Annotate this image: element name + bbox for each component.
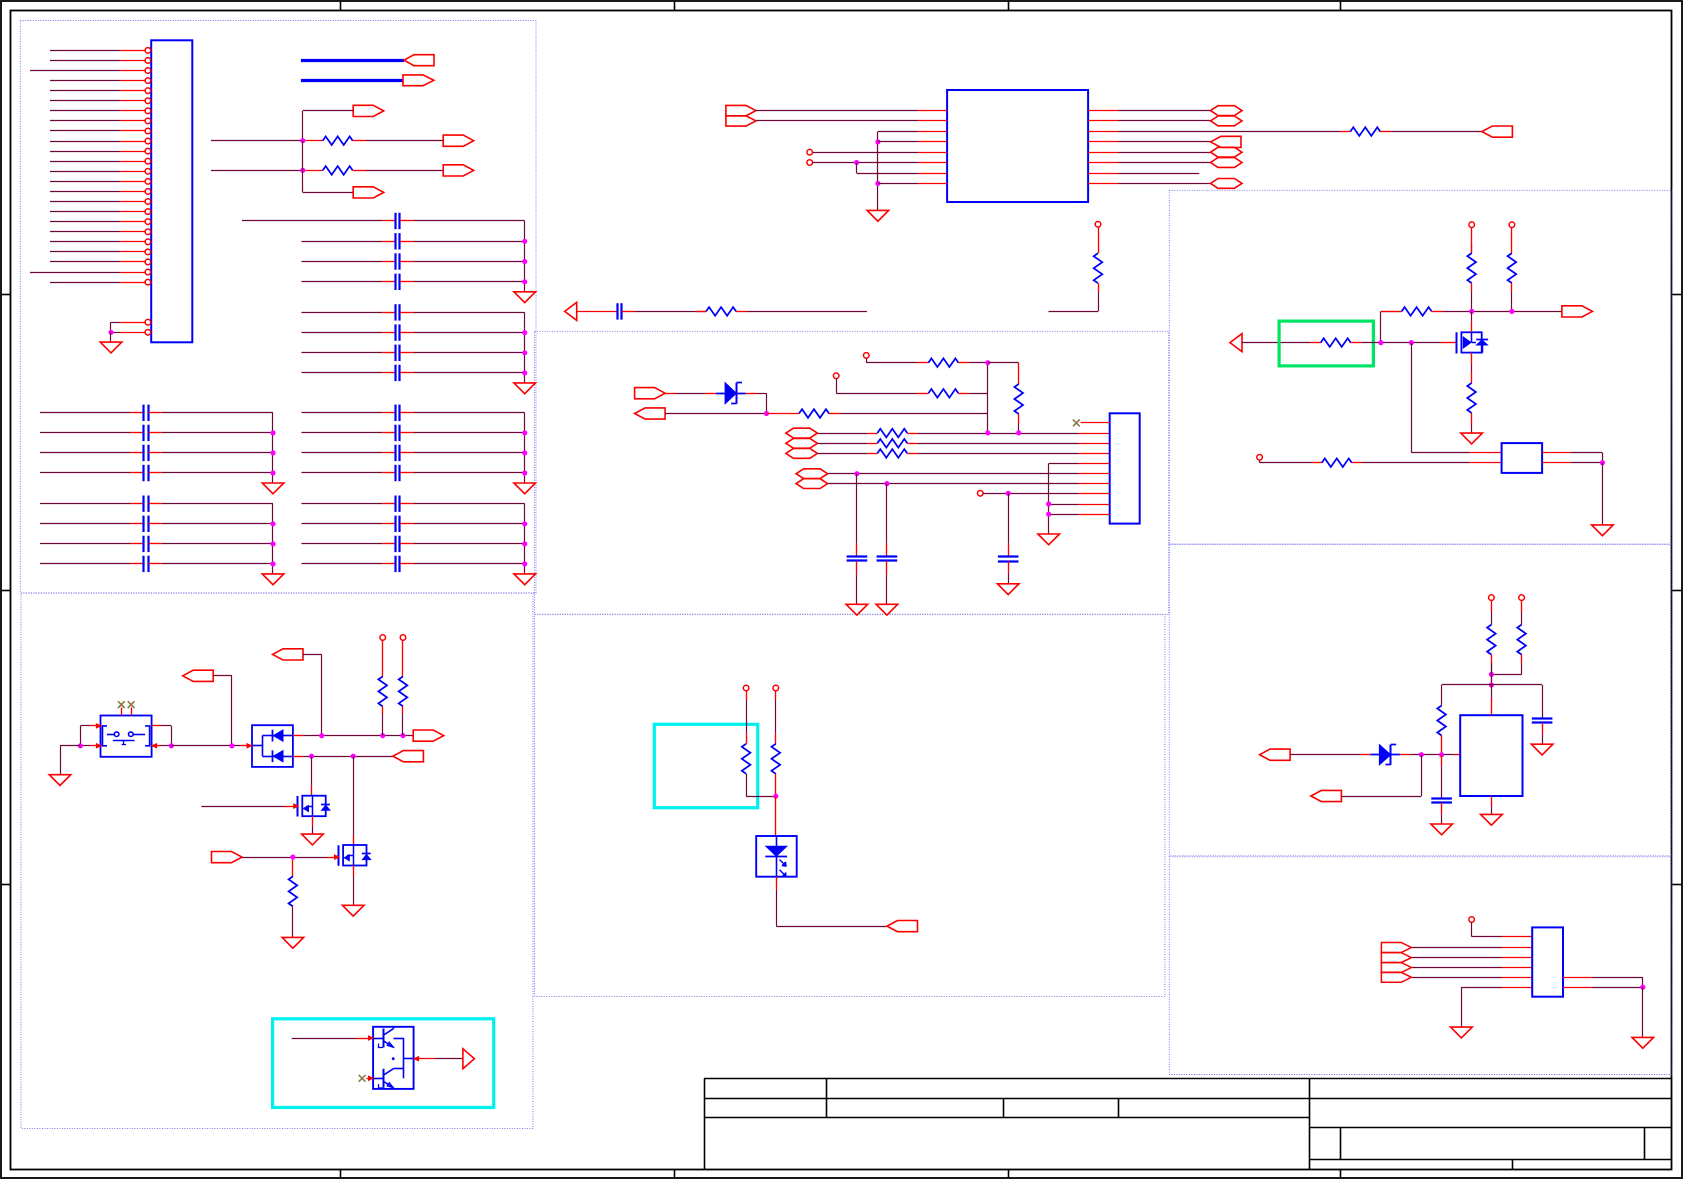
pin R14.1	[402, 640, 404, 676]
pull-up circle R5	[1095, 222, 1101, 228]
pin U1.15	[1088, 120, 1118, 122]
wire row pin2	[817, 433, 867, 435]
wire node B to port P4	[302, 170, 304, 192]
resistor R19 vertical	[1508, 253, 1517, 283]
wire node A to node B	[302, 141, 304, 171]
pin CA3.2	[400, 261, 413, 263]
port triangle P29	[1230, 334, 1242, 352]
wire U1 out1	[1118, 110, 1210, 112]
wire U1 pin2	[756, 120, 918, 122]
junction	[270, 450, 275, 455]
wire R22 to ground	[1471, 425, 1473, 433]
capacitor CD3	[142, 536, 144, 552]
wire CC3 right	[162, 452, 273, 454]
pin U3.2	[1470, 462, 1502, 464]
pin D2.1	[240, 745, 252, 747]
pin U5.6	[1502, 987, 1533, 989]
wire CD4 left	[40, 563, 131, 565]
wire CE1 right	[413, 412, 524, 414]
pin CF4.1	[382, 563, 395, 565]
wire U1 pin4	[878, 141, 918, 143]
wire CD4 right	[162, 563, 273, 565]
resistor R21	[1321, 338, 1351, 347]
junction	[270, 430, 275, 435]
pin R17.1b	[775, 733, 777, 744]
wire D3 to port	[776, 890, 778, 926]
pull-up circle R14	[400, 635, 406, 641]
junction	[522, 450, 527, 455]
pin U2.3	[1079, 443, 1110, 445]
port P4	[353, 187, 384, 198]
pin R25.2	[1521, 655, 1523, 663]
wire CB2 left	[302, 332, 383, 334]
junction	[875, 139, 880, 144]
wire R7 to junction	[968, 362, 988, 364]
junction	[522, 521, 527, 526]
ground	[262, 483, 284, 494]
wire CD3 left	[40, 543, 131, 545]
wire U2 pin10 branch	[1049, 514, 1079, 516]
port hexagon P19	[796, 469, 828, 479]
pin R2.1	[305, 170, 322, 172]
pin Q1 source	[312, 816, 314, 826]
pin CA2.2	[400, 241, 413, 243]
pull-up circle R17	[773, 685, 779, 691]
resistor R14	[399, 676, 408, 706]
wire D2 top row	[303, 735, 413, 737]
pin C25.1	[577, 311, 618, 313]
ground	[100, 342, 122, 353]
section border middle-bottom	[535, 614, 1165, 996]
IC U4 body	[1460, 715, 1522, 796]
resistor R4	[706, 307, 736, 316]
transistor Q3 dual body	[373, 1027, 414, 1089]
wire Q3 out	[435, 1058, 463, 1060]
junction	[380, 733, 385, 738]
ground	[867, 210, 889, 221]
pin U3.4	[1542, 452, 1571, 454]
pin C27.1	[886, 544, 888, 557]
wire to ground	[1602, 463, 1604, 525]
pin Q3.2	[369, 1076, 374, 1080]
pin R24.2	[1491, 655, 1493, 663]
wire CD1 left	[40, 503, 131, 505]
pin Q3.1	[369, 1036, 374, 1040]
wire CA4 left	[302, 281, 383, 283]
pin U1.12	[1088, 152, 1118, 154]
capacitor CB1	[394, 304, 396, 320]
wire U2 pin5 gnd branch	[1049, 463, 1079, 465]
pin R3.2	[1380, 131, 1391, 133]
wire U3.2 row	[1259, 460, 1261, 463]
ground	[1451, 1027, 1473, 1038]
capacitor C27	[877, 555, 898, 557]
zone tick bottom 2	[674, 1170, 676, 1179]
pin R7.2	[958, 362, 968, 364]
wire D2 bottom row	[303, 756, 393, 758]
wire CB4 left	[302, 372, 383, 374]
zone tick bottom 1	[340, 1170, 342, 1179]
pin 5 J1	[120, 90, 145, 92]
pin CD1.1	[131, 503, 144, 505]
pin U3.3	[1542, 462, 1571, 464]
capacitor CF1	[394, 496, 396, 512]
pin R4.1	[696, 311, 706, 313]
wire pin2 of J1	[50, 60, 120, 62]
pin C27.2	[886, 561, 888, 575]
pin CD4.1	[131, 563, 144, 565]
wire pin6 of J1	[50, 100, 120, 102]
wire R8 to vertical	[968, 393, 988, 395]
wire P14 to D1	[665, 393, 676, 395]
zone tick right 1	[1672, 294, 1683, 296]
wire CC3 left	[40, 452, 131, 454]
pin R16.1	[746, 691, 748, 700]
capacitor CD4	[142, 556, 144, 572]
wire CE1 left	[302, 412, 383, 414]
wire C30	[1441, 766, 1443, 798]
pin CC1.1	[131, 412, 144, 414]
pin S1.2	[90, 745, 97, 747]
wire C30 to ground	[1441, 814, 1443, 824]
port double arrow P5	[726, 105, 756, 115]
junction	[522, 259, 527, 264]
wire gate net down	[1411, 343, 1413, 453]
resistor R23	[1322, 458, 1352, 467]
port P9	[1211, 136, 1242, 147]
pin U5.4	[1502, 967, 1533, 969]
wire CB3 right	[413, 352, 524, 354]
ground	[514, 383, 536, 394]
port P22	[273, 649, 304, 660]
no-connect circle R8 top	[833, 373, 839, 379]
pin S1.4	[152, 745, 162, 747]
pin 25 J1	[120, 322, 145, 324]
wire CA3 left	[302, 261, 383, 263]
wire C27 to ground	[886, 575, 888, 605]
pin 2 J1	[120, 60, 145, 62]
port P21	[183, 670, 214, 681]
pin Q4 drain	[1471, 322, 1473, 333]
port hexagon P11	[1211, 158, 1243, 168]
zone tick top 4	[1340, 1, 1342, 11]
pin CC2.2	[148, 432, 161, 434]
resistor R22 vertical	[1467, 383, 1476, 413]
pin R21.2	[1351, 342, 1362, 344]
diode D1 zener	[716, 393, 725, 395]
capacitor CD1	[142, 496, 144, 512]
wire cap C27 branch	[886, 484, 888, 544]
junction	[1409, 340, 1414, 345]
wire pin15 of J1	[50, 191, 120, 193]
ground	[1592, 525, 1614, 536]
pin CB4.2	[400, 372, 413, 374]
ground	[282, 937, 304, 948]
junction	[875, 181, 880, 186]
pin 3 J1	[120, 70, 145, 72]
wire P31 up	[1341, 796, 1421, 798]
pin CE1.1	[382, 412, 395, 414]
wire U5 pin6 to ground	[1461, 987, 1501, 989]
pin R19.2	[1511, 283, 1513, 292]
pin D1.2	[746, 393, 757, 395]
port P3	[443, 165, 474, 176]
pin R17.2	[775, 774, 777, 796]
pull-up circle R18	[1469, 222, 1475, 228]
pin CC3.1	[131, 452, 144, 454]
connector J1 body	[151, 40, 192, 342]
wire ground stem	[110, 332, 112, 342]
pin LED D3 anode	[775, 796, 777, 836]
port hexagon P7	[1211, 116, 1243, 126]
diode D4	[1370, 754, 1379, 756]
pin U2.6	[1079, 473, 1110, 475]
no-connect circle U3.2	[1257, 455, 1263, 461]
pin CE3.2	[400, 452, 413, 454]
pin U2.8	[1079, 493, 1110, 495]
bus net2	[301, 79, 403, 82]
pin U1.16	[1088, 110, 1118, 112]
junction	[1046, 512, 1051, 517]
wire CE2 right	[413, 432, 524, 434]
ground	[997, 584, 1019, 595]
wire pin7 of J1	[50, 110, 120, 112]
pin 7 J1	[120, 110, 145, 112]
pin U1.5	[918, 152, 947, 154]
capacitor C25	[616, 303, 618, 319]
pin R15.1	[292, 860, 294, 877]
wire CA2 left	[302, 241, 383, 243]
zone tick top 3	[1008, 1, 1010, 11]
pin R5.1	[1098, 227, 1100, 253]
ground	[1431, 824, 1453, 835]
pin CA4.1	[382, 281, 395, 283]
wire U3.4 out	[1571, 452, 1603, 454]
ground	[514, 483, 536, 494]
wire U1 pin3 from ground net	[878, 131, 918, 133]
wire U4 top	[1491, 685, 1493, 698]
wire CF4 right	[413, 563, 524, 565]
pin U1.9	[1088, 183, 1118, 185]
wire CF1 right	[413, 503, 524, 505]
pin D4.2	[1400, 754, 1410, 756]
junction	[108, 330, 113, 335]
wire right branch down	[1542, 685, 1544, 718]
pin U2.9	[1079, 504, 1110, 506]
capacitor CE1	[394, 405, 396, 421]
wire P29 to R21	[1242, 342, 1310, 344]
port P30	[1260, 749, 1291, 760]
pin 13 J1	[120, 171, 145, 173]
pin 12 J1	[120, 161, 145, 163]
pin CA1.2	[400, 220, 413, 222]
junction	[270, 561, 275, 566]
pin CF2.1	[382, 523, 395, 525]
wire D4 to U4	[1410, 754, 1454, 756]
wire CE3 right	[413, 452, 524, 454]
wire CD1 right	[162, 503, 273, 505]
wire Q2 gate	[242, 857, 327, 859]
pin 23 J1	[120, 272, 145, 274]
capacitor C26	[847, 555, 868, 557]
wire R16 bottom	[746, 774, 748, 796]
junction	[270, 470, 275, 475]
wire CC4 right	[162, 472, 273, 474]
wire P22 down	[303, 654, 322, 656]
ground	[49, 775, 71, 786]
wire row pin4	[817, 453, 867, 455]
wire CC1 right	[162, 412, 273, 414]
wire pin19 of J1	[50, 231, 120, 233]
resistor R10	[877, 429, 907, 438]
port hexagon P16	[786, 428, 818, 438]
section border bottom-left	[21, 593, 533, 1128]
transistor Q2	[353, 835, 355, 845]
pin CB2.1	[382, 332, 395, 334]
wire pin17 of J1	[50, 211, 120, 213]
wire P21 down	[213, 675, 232, 677]
bus port right-pointing	[403, 75, 434, 86]
pin R2.2	[353, 170, 366, 172]
wire Q4 source	[1471, 365, 1473, 371]
no-connect X S1 pin6	[128, 701, 135, 708]
pin CF3.2	[400, 543, 413, 545]
pin CC4.2	[148, 472, 161, 474]
wire U1 out3	[1118, 131, 1340, 133]
no-connect circle pin6	[807, 160, 813, 166]
port P27	[887, 921, 918, 932]
wire cap group collector	[524, 221, 526, 292]
pin R26.2	[1441, 736, 1443, 755]
IC U5 body	[1532, 927, 1563, 996]
capacitor CF4	[394, 556, 396, 572]
pin CE1.2	[400, 412, 413, 414]
wire CE3 left	[302, 452, 383, 454]
wire pin3 of J1	[30, 70, 120, 72]
port P28	[1562, 306, 1593, 317]
capacitor CC3	[142, 445, 144, 461]
wire R15 to ground	[292, 906, 294, 937]
pin D2.2	[293, 735, 303, 737]
capacitor CB2	[394, 324, 396, 340]
capacitor CE4	[394, 465, 396, 481]
wire C25 to R4	[635, 311, 706, 313]
port hexagon P10	[1211, 147, 1243, 157]
pin CD3.2	[148, 543, 161, 545]
port P25	[212, 852, 243, 863]
wire R6 to vertical	[840, 413, 988, 415]
wire CD2 right	[162, 523, 273, 525]
junction	[522, 470, 527, 475]
highlight box cyan 2	[654, 724, 757, 807]
zone tick top 2	[674, 1, 676, 11]
pin U5.8	[1563, 977, 1592, 979]
resistor R3	[1350, 127, 1380, 136]
pin U2.5	[1079, 463, 1110, 465]
wire CC4 left	[40, 472, 131, 474]
junction	[1600, 460, 1605, 465]
wire node down	[1491, 663, 1493, 685]
junction	[270, 541, 275, 546]
junction	[522, 350, 527, 355]
resistor R15 vertical	[289, 876, 298, 906]
pin R7.1	[917, 362, 928, 364]
pin R10.1	[867, 433, 877, 435]
capacitor CC1	[142, 405, 144, 421]
pin U3.1	[1470, 452, 1502, 454]
wire port P1 to node A	[303, 110, 353, 112]
ground	[1038, 534, 1060, 545]
junction	[522, 541, 527, 546]
junction	[78, 743, 83, 748]
pin U1.1	[918, 110, 947, 112]
pin R24.1	[1491, 600, 1493, 612]
resistor R8	[928, 389, 958, 398]
capacitor CA4	[394, 274, 396, 290]
pin C30.1	[1441, 755, 1443, 766]
pin U5.3	[1502, 957, 1533, 959]
wire U5 pin2	[1412, 947, 1501, 949]
pin CB1.2	[400, 312, 413, 314]
pin CB3.2	[400, 352, 413, 354]
junction	[985, 430, 990, 435]
wire row1 left	[211, 140, 303, 142]
wire cap group collector	[272, 413, 274, 483]
wire U1 pin1	[756, 110, 918, 112]
pin R18.1b	[1471, 243, 1473, 253]
wire R20 left down	[1380, 311, 1382, 342]
pin R23.1	[1312, 462, 1322, 464]
pin U2.7	[1079, 483, 1110, 485]
pin CC4.1	[131, 472, 144, 474]
port thin arrow P34	[1381, 963, 1411, 973]
junction	[522, 330, 527, 335]
wire pin21 of J1	[50, 251, 120, 253]
wire CA2 right	[413, 241, 524, 243]
junction	[773, 794, 778, 799]
junction node B	[300, 168, 305, 173]
junction	[854, 471, 859, 476]
pin R21.1	[1310, 342, 1320, 344]
pin 10 J1	[120, 141, 145, 143]
pin CF3.1	[382, 543, 395, 545]
wire U5.7 out	[1592, 987, 1643, 989]
pin CE3.1	[382, 452, 395, 454]
pin CF1.2	[400, 503, 413, 505]
pin D4.1	[1360, 754, 1370, 756]
wire cap group collector	[272, 504, 274, 574]
bus port left-pointing	[404, 55, 434, 66]
wire cap C28 branch	[1008, 493, 1010, 544]
port triangle P26	[463, 1049, 475, 1069]
junction	[1378, 340, 1383, 345]
pin R9.1	[1018, 363, 1020, 384]
wire pin18 of J1	[50, 221, 120, 223]
pin R5.2	[1098, 283, 1100, 292]
pin R18.2	[1471, 283, 1473, 292]
wire pin16 of J1	[50, 201, 120, 203]
pin U2.2	[1079, 433, 1110, 435]
wire U1 pin8	[878, 183, 918, 185]
pin CD2.2	[148, 523, 161, 525]
wire CF3 left	[302, 543, 383, 545]
pin R3.1	[1340, 131, 1350, 133]
wire U1 pin6	[813, 162, 918, 164]
wire R18 down	[1471, 292, 1473, 311]
pin 11 J1	[120, 151, 145, 153]
wire S1 right pins	[161, 725, 171, 727]
pin U1.14	[1088, 131, 1118, 133]
